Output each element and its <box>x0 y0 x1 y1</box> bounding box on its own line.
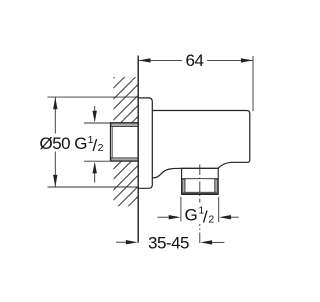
dimension 64: dimension line <box>139 59 182 61</box>
inlet G1/2: top extension line <box>84 122 110 124</box>
svg-text:2: 2 <box>208 213 214 225</box>
svg-text:/: / <box>203 207 208 226</box>
wall face line <box>137 56 139 243</box>
dimension 64: right extension line <box>252 56 254 111</box>
dimension O50: top extension line <box>48 96 139 98</box>
outlet G1/2: right arrow (pointing left) <box>230 216 239 218</box>
svg-text:2: 2 <box>98 142 104 154</box>
dimension 64: right arrowhead <box>241 58 253 62</box>
svg-text:Ø50: Ø50 <box>40 134 71 153</box>
dimension 35-45: left arrow (pointing right) <box>116 241 126 243</box>
dimension O50: bottom extension line <box>48 186 139 188</box>
wall hatch top <box>100 42 150 165</box>
outlet G1/2 label (masks centerline) <box>184 203 215 227</box>
inlet G1/2: bottom extension line <box>84 160 110 162</box>
inlet G1/2: top arrow (pointing down) <box>94 106 96 113</box>
dimension 35-45: right arrow (pointing left) <box>212 241 224 243</box>
svg-text:64: 64 <box>186 51 204 70</box>
dimension O50: bottom arrowhead <box>53 175 57 187</box>
svg-text:G: G <box>185 206 198 225</box>
escutcheon wall plate (Ø50) <box>138 98 152 188</box>
svg-text:G: G <box>74 134 87 153</box>
body outline <box>152 111 250 178</box>
outlet G1/2: left arrow (pointing right) <box>158 216 170 218</box>
outlet G1/2: left extension line <box>180 197 182 222</box>
outlet centerline (dash-dot) <box>199 165 201 244</box>
wall hatch bottom <box>100 133 150 246</box>
dimension 64: left arrowhead <box>139 58 151 62</box>
inlet thread nipple G1/2 (through wall) <box>110 123 138 162</box>
inlet G1/2: bottom arrow (pointing up) <box>94 173 96 183</box>
outlet thread nipple G1/2 <box>182 168 219 194</box>
svg-text:35-45: 35-45 <box>148 233 189 252</box>
dimension O50: top arrowhead <box>53 97 57 109</box>
outlet G1/2: right extension line <box>218 197 220 222</box>
dimension O50: dimension line <box>54 98 56 134</box>
